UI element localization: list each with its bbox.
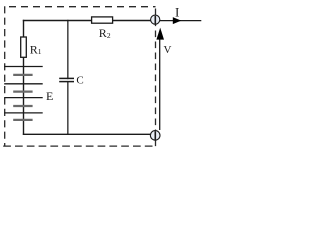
voltage arrow V [156, 28, 171, 130]
enclosure dashed boundary box [3, 6, 155, 146]
wire: output lead right with current arrow I [160, 4, 201, 24]
cell 4 long plate [4, 112, 43, 114]
current arrowhead [173, 17, 181, 24]
capacitor C [59, 74, 84, 86]
resistor R2 [92, 17, 113, 40]
svg-text:R1: R1 [30, 43, 42, 57]
cell 2 short plate [13, 90, 32, 92]
wire: top horizontal from node A to terminal [23, 20, 151, 22]
svg-text:C: C [76, 74, 83, 86]
battery E (4 cells) [4, 67, 53, 120]
cell 3 long plate [4, 97, 43, 99]
arrowhead up [156, 28, 164, 40]
svg-text:R2: R2 [99, 26, 111, 40]
wire: middle branch vertical [67, 20, 69, 135]
plate gap mask [67, 79, 69, 81]
wire: left branch vertical [23, 20, 25, 135]
cell 4 short plate [13, 119, 32, 121]
lower plate [59, 81, 74, 83]
wire: bottom horizontal [23, 133, 151, 135]
svg-text:I: I [175, 4, 179, 19]
terminal circle top (output node) [151, 15, 160, 24]
svg-text:V: V [164, 44, 172, 56]
resistor R1 [21, 37, 42, 57]
cell 1 short plate [13, 74, 32, 76]
svg-text:E: E [46, 89, 53, 103]
cell 2 long plate [4, 83, 43, 85]
cell 1 long plate [4, 66, 43, 68]
upper plate [59, 77, 74, 79]
terminal circle bottom (output node) [150, 131, 160, 141]
cell 3 short plate [13, 105, 32, 107]
